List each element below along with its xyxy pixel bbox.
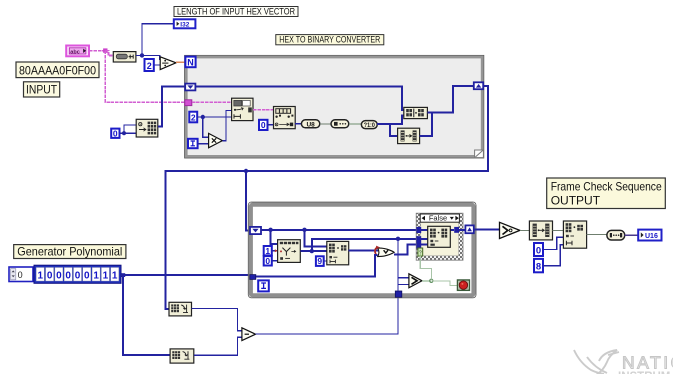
wire 1 to rotate with coercion xyxy=(272,250,278,252)
constant 1 xyxy=(264,246,272,256)
wire initialize array up to left shift register xyxy=(158,86,186,126)
node junction to while loop xyxy=(244,169,248,173)
svg-text:abc: abc xyxy=(70,50,79,56)
svg-text:I32: I32 xyxy=(180,21,189,28)
wire shift register to build array xyxy=(195,87,403,111)
node junction rotate output xyxy=(310,249,314,253)
replace array subset icon in case xyxy=(428,226,451,247)
build array icon xyxy=(404,107,428,118)
wire reverse to array subset xyxy=(553,229,564,231)
svg-text:?1:0: ?1:0 xyxy=(364,123,376,129)
wire while shift register main line xyxy=(261,229,416,231)
svg-text:0: 0 xyxy=(65,270,71,281)
reverse 1d array icon xyxy=(398,128,420,143)
svg-text:0: 0 xyxy=(56,270,62,281)
node coercion dot red xyxy=(275,249,278,252)
svg-text:0: 0 xyxy=(113,128,118,138)
while right shift register xyxy=(465,225,473,233)
wire array size 1 to subtract xyxy=(192,309,242,331)
wire index output to xor xyxy=(349,249,378,251)
wire constant 2 to divide xyxy=(154,64,161,66)
xor gate xyxy=(375,246,394,257)
node blue junction xyxy=(140,53,144,57)
wire subset to scan (pink) xyxy=(253,109,274,111)
wire junction down to multiply xyxy=(203,117,209,137)
wire generator polynomial to while loop xyxy=(121,274,250,276)
wire junction down to index icon xyxy=(305,230,327,247)
wire junction up branch to initialize array xyxy=(124,125,136,133)
boolean array to number function xyxy=(500,222,520,238)
constant 0 output xyxy=(534,243,543,256)
wire junction down to bottom tunnel xyxy=(397,239,399,291)
wire to boolean-to-01 bubble xyxy=(349,123,362,125)
svg-text:0: 0 xyxy=(18,270,23,280)
wire 2 to junction and subset xyxy=(197,116,231,118)
svg-text:LENGTH OF INPUT HEX VECTOR: LENGTH OF INPUT HEX VECTOR xyxy=(177,6,295,16)
tunnel bottom count xyxy=(395,291,402,297)
svg-text:0: 0 xyxy=(84,270,90,281)
constant 9 xyxy=(316,256,324,266)
svg-text:False: False xyxy=(429,213,447,222)
node junction xor line xyxy=(396,237,400,241)
svg-text:0: 0 xyxy=(75,270,81,281)
constant 2 (divisor) xyxy=(145,59,154,71)
array subset icon output xyxy=(563,221,586,248)
svg-text:80AAAA0F0F00: 80AAAA0F0F00 xyxy=(19,63,96,77)
indicator U16 xyxy=(638,230,661,241)
array control (generator polynomial) index box xyxy=(9,267,33,282)
string control INPUT (abc) xyxy=(66,46,89,57)
index array icon xyxy=(327,241,349,264)
svg-text:Frame Check Sequence: Frame Check Sequence xyxy=(551,180,662,194)
wire bubble to reverse array xyxy=(377,124,397,136)
wire 0 to array subset xyxy=(543,237,563,249)
svg-text:1: 1 xyxy=(38,270,44,281)
wire generator tunnel to xor xyxy=(256,255,378,277)
node junction rotate xyxy=(268,228,272,232)
string length icon xyxy=(113,52,136,62)
wire junction down to while shift register xyxy=(246,171,250,230)
wire junction up and right to case tunnel xyxy=(312,239,417,251)
constant 0 (scan default) xyxy=(259,120,268,130)
label Generator Polynomial xyxy=(14,245,126,259)
rotate 1d array icon xyxy=(278,240,301,263)
wire array size 2 to subtract xyxy=(194,337,242,355)
wire convert to U16 indicator xyxy=(625,234,639,236)
constant 0 (initialize array) xyxy=(111,128,119,138)
svg-text:1: 1 xyxy=(103,270,109,281)
svg-text:HEX TO BINARY CONVERTER: HEX TO BINARY CONVERTER xyxy=(279,35,380,45)
stop button xyxy=(458,280,470,290)
for loop resize handle xyxy=(475,150,484,158)
wire green to stop button xyxy=(433,281,458,286)
case structure border xyxy=(416,213,463,260)
iteration terminal i xyxy=(188,139,198,148)
wire for-loop output down and across xyxy=(165,86,488,309)
wire junction down to array size 2 xyxy=(123,275,170,355)
label INPUT xyxy=(24,82,60,97)
svg-text:1: 1 xyxy=(265,246,270,256)
wire while output to boolean-array-to-number xyxy=(474,229,500,231)
svg-text:OUTPUT: OUTPUT xyxy=(551,194,601,208)
wire string length to junction xyxy=(136,54,142,56)
case selector label False xyxy=(420,213,459,222)
svg-text:U16: U16 xyxy=(645,233,658,240)
wire rotate output to index xyxy=(300,250,327,252)
svg-text:1: 1 xyxy=(93,270,99,281)
case selector terminal xyxy=(418,248,423,257)
label Frame Check Sequence OUTPUT xyxy=(547,178,666,209)
NI watermark text NATIO xyxy=(618,353,673,374)
label LENGTH OF INPUT HEX VECTOR xyxy=(174,6,298,16)
svg-text:2: 2 xyxy=(147,61,152,71)
node junction at 0 wire xyxy=(122,131,126,135)
NI watermark logo xyxy=(574,350,619,374)
output reverse 1d array icon xyxy=(529,221,552,240)
wire multiply up to string subset xyxy=(222,110,231,140)
tunnel generator polynomial xyxy=(250,275,256,280)
for loop frame xyxy=(185,55,484,158)
node generator polynomial junction xyxy=(121,273,125,277)
node pink junction xyxy=(103,48,107,52)
greater than zero function xyxy=(409,274,422,288)
case tunnel input 1 xyxy=(416,227,421,233)
svg-text:NATIO: NATIO xyxy=(622,353,673,373)
wire build array to right shift register xyxy=(427,86,473,113)
constant 2 (subset length) xyxy=(189,112,197,123)
wire xor output to case tunnel xyxy=(394,244,416,254)
right shift register xyxy=(474,82,483,89)
wire to output reverse array xyxy=(520,229,530,231)
while loop frame xyxy=(248,202,476,298)
left shift register xyxy=(185,84,195,91)
subtract function xyxy=(242,328,256,341)
while iteration terminal i xyxy=(258,280,269,291)
wire scan to U8 xyxy=(295,123,301,125)
svg-text:Generator Polynomial: Generator Polynomial xyxy=(17,245,122,259)
conversion bubble U8 xyxy=(301,120,319,129)
convert bubble xyxy=(607,230,625,240)
number to boolean array bubble xyxy=(331,120,349,128)
wire divide to N terminal (orange) xyxy=(176,61,185,63)
node green junction xyxy=(430,279,433,282)
wire greater-than output (boolean green) xyxy=(422,280,431,282)
array size icon 1 xyxy=(169,302,192,316)
scan from string icon xyxy=(274,107,296,129)
node junction 2 xyxy=(201,115,205,119)
array constant generator polynomial 100000111 xyxy=(34,265,121,283)
svg-text:?: ? xyxy=(419,251,422,257)
wire 0 to rotate xyxy=(272,260,278,262)
tunnel string input (pink) xyxy=(185,100,192,106)
initialize array icon xyxy=(136,119,158,137)
svg-text:8: 8 xyxy=(536,262,541,273)
indicator I32 xyxy=(174,19,196,28)
boolean to 0,1 bubble xyxy=(361,121,377,129)
wire 0 to initialize array xyxy=(120,132,137,134)
svg-text:0: 0 xyxy=(536,245,541,256)
wire case stubs xyxy=(421,230,465,245)
svg-text:0: 0 xyxy=(47,270,53,281)
svg-text:U8: U8 xyxy=(306,121,315,128)
multiply function xyxy=(209,133,223,147)
wire pink tunnel to string subset xyxy=(192,101,232,103)
string subset icon xyxy=(232,98,253,120)
while left shift register xyxy=(250,227,261,234)
svg-text:2: 2 xyxy=(191,112,196,122)
case tunnel input 2 and 3 xyxy=(416,236,421,248)
wire stub to greater-than top xyxy=(398,277,409,279)
divide function xyxy=(160,57,176,70)
node junction index xyxy=(302,228,306,232)
constant 8 output xyxy=(534,259,543,273)
wire string control to junction (pink) xyxy=(89,50,105,52)
wire U8 to number-to-boolean-array xyxy=(320,123,331,125)
svg-text:0: 0 xyxy=(261,120,266,130)
wire branch to build array lower input xyxy=(390,115,404,124)
wire junction up to I32 indicator xyxy=(142,24,174,56)
wire reverse up to output line xyxy=(420,113,433,136)
svg-text:9: 9 xyxy=(317,256,322,266)
wire 0 to scan xyxy=(268,124,274,126)
wire subtract to while loop bottom tunnel xyxy=(256,297,399,334)
wire junction to divide xyxy=(142,55,160,59)
wire array subset to convert xyxy=(587,234,607,236)
wire junction down to loop tunnel (pink) xyxy=(105,51,185,103)
label HEX TO BINARY CONVERTER xyxy=(276,35,384,45)
svg-text:1: 1 xyxy=(112,270,118,281)
constant 0 xyxy=(264,256,272,266)
wire stub to greater-than bottom xyxy=(398,283,409,285)
N count terminal xyxy=(185,57,195,68)
wire 9 to index icon xyxy=(324,260,327,262)
case tunnel output xyxy=(454,227,459,233)
array size icon 2 xyxy=(170,349,194,363)
svg-text:N: N xyxy=(187,57,194,67)
wire junction down to rotate icon xyxy=(271,230,278,244)
wire green to case selector xyxy=(420,256,431,279)
wire 8 to array subset xyxy=(543,245,563,266)
svg-text:0: 0 xyxy=(265,256,270,266)
label 80AAAA0F0F00 xyxy=(16,62,99,78)
wire junction to string length (pink) xyxy=(105,51,113,56)
svg-text:INPUT: INPUT xyxy=(26,85,57,97)
wire i to multiply xyxy=(198,143,209,145)
